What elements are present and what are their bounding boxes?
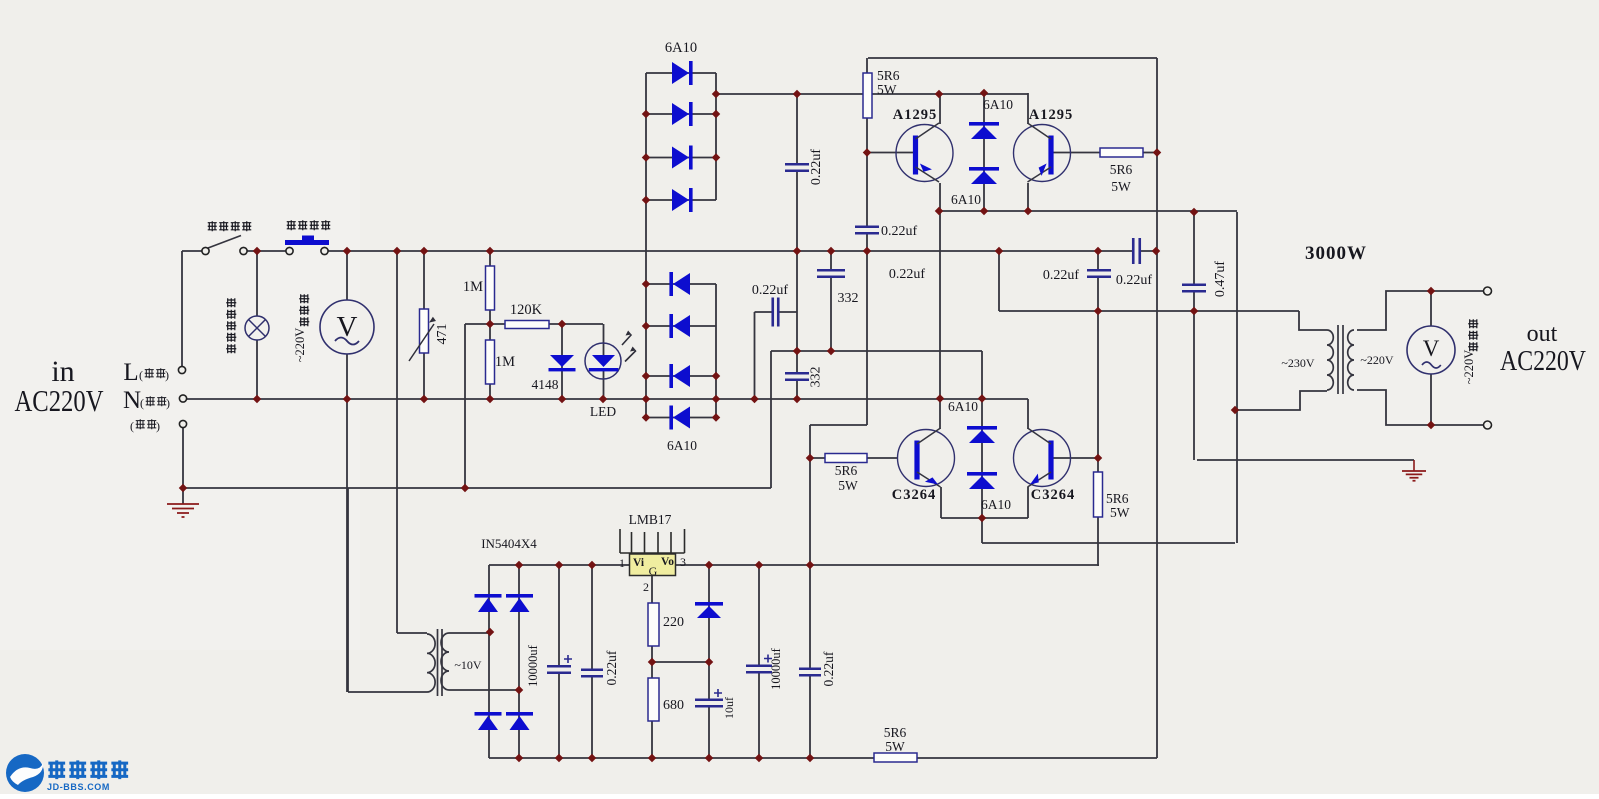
svg-text:6A10: 6A10 <box>983 97 1013 112</box>
svg-text:Vo: Vo <box>661 556 674 568</box>
svg-text:5W: 5W <box>838 478 858 493</box>
svg-text:0.22uf: 0.22uf <box>604 650 619 685</box>
svg-text:5R6: 5R6 <box>1106 491 1129 506</box>
svg-text:3000W: 3000W <box>1305 243 1367 264</box>
svg-text:~220V: ~220V <box>293 328 307 363</box>
svg-text:A1295: A1295 <box>893 107 937 123</box>
svg-text:C3264: C3264 <box>1031 487 1075 503</box>
svg-text:5W: 5W <box>1110 505 1130 520</box>
svg-text:IN5404X4: IN5404X4 <box>481 536 537 551</box>
svg-text:10000uf: 10000uf <box>526 644 540 687</box>
svg-text:5W: 5W <box>1111 179 1131 194</box>
svg-text:1M: 1M <box>495 354 515 370</box>
svg-text:(: ( <box>139 368 143 382</box>
svg-text:10uf: 10uf <box>722 697 736 719</box>
svg-text:0.22uf: 0.22uf <box>1043 268 1080 283</box>
svg-text:(: ( <box>140 396 144 410</box>
svg-text:0.22uf: 0.22uf <box>752 283 789 298</box>
svg-text:AC220V: AC220V <box>15 383 104 418</box>
svg-text:Vi: Vi <box>633 557 645 569</box>
svg-text:6A10: 6A10 <box>948 399 978 414</box>
svg-text:AC220V: AC220V <box>1500 346 1586 377</box>
svg-text:~230V: ~230V <box>1281 356 1314 370</box>
svg-text:6A10: 6A10 <box>667 438 697 453</box>
svg-text:332: 332 <box>809 367 824 388</box>
svg-text:3: 3 <box>680 555 686 569</box>
svg-text:L: L <box>123 359 138 386</box>
svg-text:~10V: ~10V <box>454 658 481 672</box>
svg-text:4148: 4148 <box>532 377 559 392</box>
svg-text:6A10: 6A10 <box>951 192 981 207</box>
svg-text:G: G <box>649 564 658 578</box>
svg-text:out: out <box>1527 321 1558 347</box>
svg-text:A1295: A1295 <box>1029 107 1073 123</box>
svg-text:0.22uf: 0.22uf <box>821 651 836 686</box>
svg-text:JD-BBS.COM: JD-BBS.COM <box>47 782 110 792</box>
svg-text:0.22uf: 0.22uf <box>809 149 824 186</box>
svg-text:1M: 1M <box>463 279 483 295</box>
svg-text:0.47uf: 0.47uf <box>1213 261 1228 298</box>
svg-text:471: 471 <box>435 324 450 345</box>
svg-text:0.22uf: 0.22uf <box>881 224 918 239</box>
svg-text:LMB17: LMB17 <box>629 512 672 527</box>
svg-text:680: 680 <box>663 698 684 713</box>
svg-text:1: 1 <box>619 556 625 570</box>
svg-text:(: ( <box>130 419 134 433</box>
svg-text:): ) <box>166 396 170 410</box>
svg-text:): ) <box>156 419 160 433</box>
svg-text:5W: 5W <box>877 82 897 97</box>
svg-text:5R6: 5R6 <box>1110 162 1133 177</box>
svg-text:0.22uf: 0.22uf <box>889 267 926 282</box>
svg-text:LED: LED <box>590 404 616 419</box>
svg-text:10000uf: 10000uf <box>769 647 783 690</box>
svg-text:5R6: 5R6 <box>884 725 907 740</box>
svg-text:220: 220 <box>663 615 684 630</box>
svg-text:6A10: 6A10 <box>981 497 1011 512</box>
svg-text:~220V: ~220V <box>1462 350 1476 385</box>
svg-text:~220V: ~220V <box>1360 353 1393 367</box>
svg-text:120K: 120K <box>510 302 543 318</box>
svg-text:C3264: C3264 <box>892 487 936 503</box>
svg-text:332: 332 <box>838 291 859 306</box>
svg-text:5W: 5W <box>885 739 905 754</box>
svg-text:0.22uf: 0.22uf <box>1116 273 1153 288</box>
svg-text:6A10: 6A10 <box>665 40 697 56</box>
svg-text:): ) <box>165 368 169 382</box>
svg-text:2: 2 <box>643 580 649 594</box>
svg-text:5R6: 5R6 <box>877 68 900 83</box>
svg-text:5R6: 5R6 <box>835 463 858 478</box>
svg-text:V: V <box>1423 336 1440 361</box>
svg-text:N: N <box>123 387 141 414</box>
